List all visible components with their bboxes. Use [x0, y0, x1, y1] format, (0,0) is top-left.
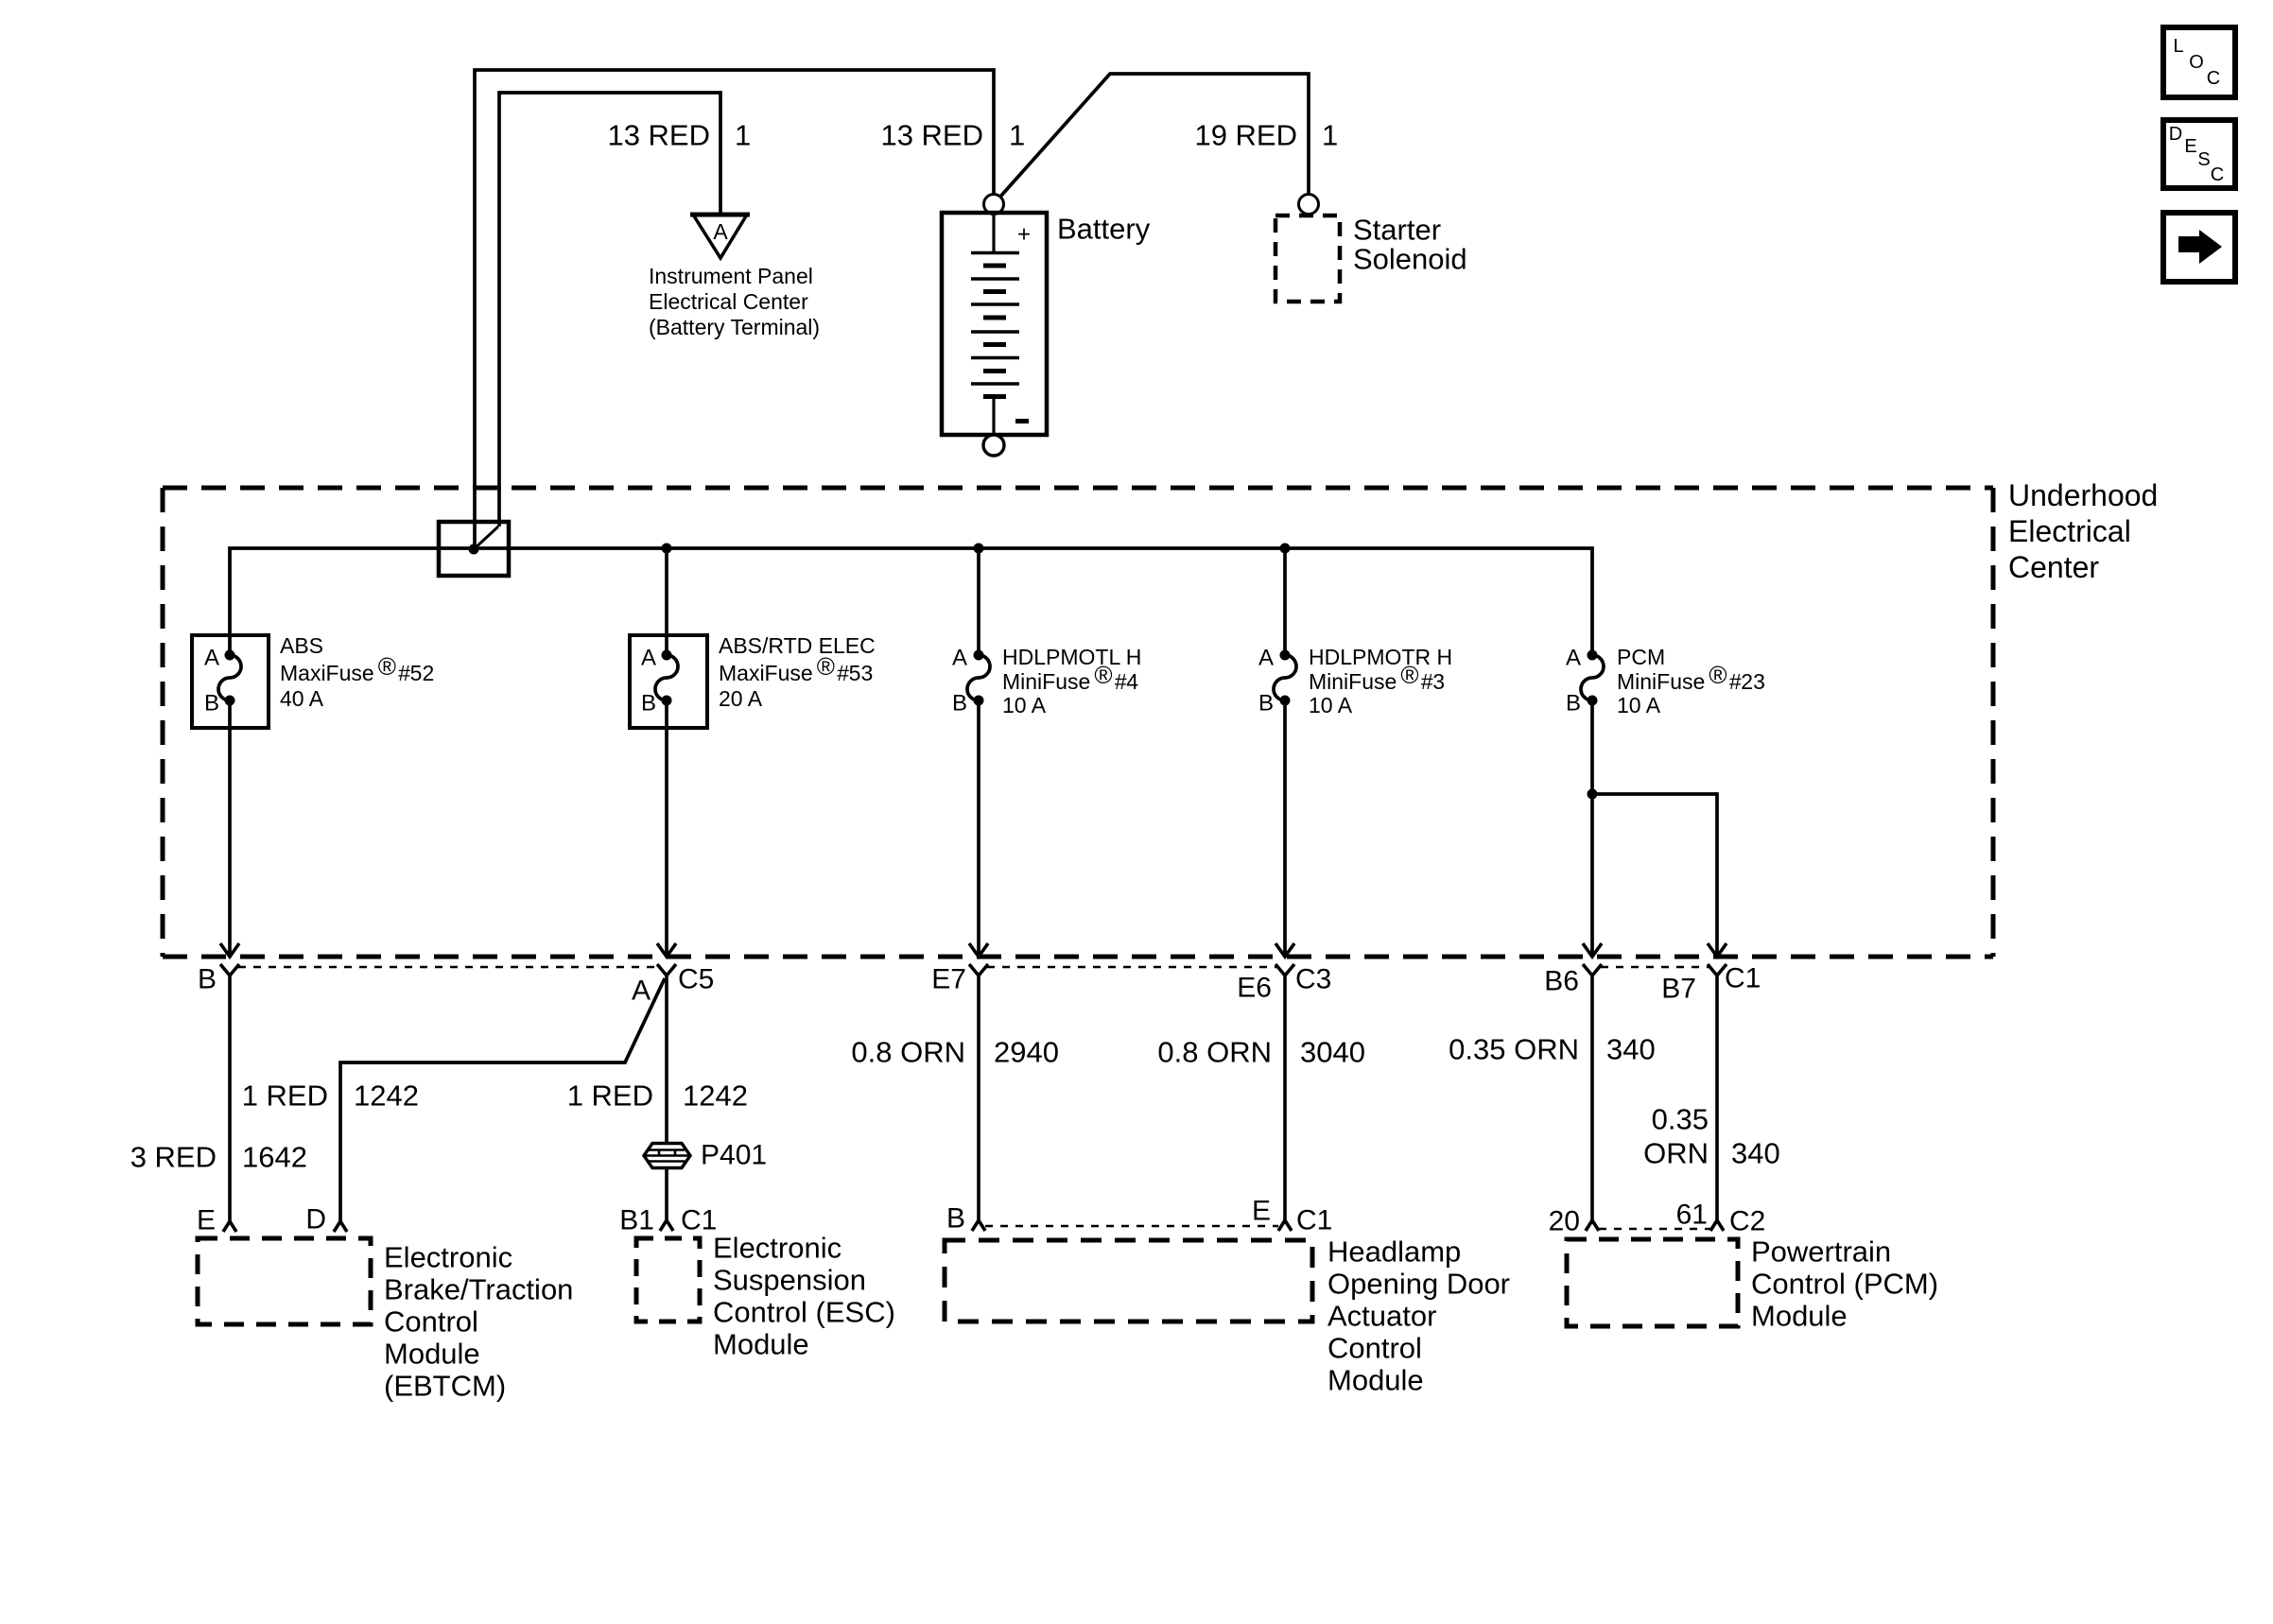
- svg-text:0.35: 0.35: [1652, 1103, 1709, 1136]
- svg-text:19 RED: 19 RED: [1194, 119, 1297, 152]
- battery B+ terminal ring: [984, 195, 1004, 215]
- EBTCM module dashed box: [198, 1238, 371, 1324]
- svg-text:B: B: [641, 691, 656, 717]
- wire fuse 52 B to connector B: [228, 700, 232, 955]
- connector arrow B: [220, 943, 239, 957]
- bus B+ feed rail inside UEC: [230, 548, 1592, 655]
- svg-text:B1: B1: [619, 1205, 654, 1236]
- connector fork D (EBTCM): [334, 1221, 347, 1232]
- svg-text:0.8 ORN: 0.8 ORN: [1157, 1036, 1272, 1069]
- note Instrument Panel Electrical Center (Battery Terminal): [649, 264, 820, 339]
- svg-text:340: 340: [1731, 1137, 1780, 1170]
- svg-text:0.35 ORN: 0.35 ORN: [1449, 1033, 1579, 1066]
- svg-text:A: A: [1566, 646, 1581, 671]
- svg-text:B: B: [1258, 691, 1274, 717]
- svg-text:L: L: [2173, 36, 2183, 57]
- svg-text:B6: B6: [1544, 966, 1579, 997]
- wire battery to starter solenoid (diagonal + top run): [1000, 74, 1309, 197]
- svg-text:+: +: [1017, 222, 1031, 248]
- svg-text:1 RED: 1 RED: [567, 1080, 653, 1113]
- wire fuse 23 B to connector B6: [1590, 700, 1594, 955]
- svg-text:Module: Module: [1751, 1300, 1848, 1333]
- svg-text:Battery: Battery: [1057, 213, 1151, 246]
- starter solenoid terminal ring: [1299, 195, 1319, 215]
- svg-text:D: D: [305, 1204, 326, 1235]
- wire bus tap to fuse 3: [1283, 548, 1287, 655]
- ESC module dashed box: [636, 1238, 700, 1322]
- node splice junction dot: [469, 544, 479, 555]
- svg-text:P401: P401: [701, 1140, 767, 1171]
- connector fork B with stem: [220, 964, 239, 1221]
- connector fork C5 with stem: [657, 964, 676, 1220]
- svg-text:Starter: Starter: [1353, 214, 1441, 247]
- svg-text:ABS: ABS: [280, 633, 323, 658]
- svg-text:1: 1: [735, 119, 751, 152]
- label Powertrain Control (PCM) Module: [1751, 1235, 1938, 1333]
- svg-text:C3: C3: [1295, 964, 1331, 995]
- svg-text:(Battery Terminal): (Battery Terminal): [649, 315, 820, 339]
- connector fork E (EBTCM): [223, 1221, 236, 1232]
- svg-text:1: 1: [1009, 119, 1025, 152]
- connector fork C1 with stem: [1708, 964, 1726, 1220]
- svg-text:HDLPMOTR H: HDLPMOTR H: [1309, 645, 1452, 669]
- svg-text:S: S: [2197, 149, 2210, 170]
- svg-text:Control: Control: [1327, 1332, 1422, 1365]
- connector joint dashed B6 to C1: [1601, 966, 1709, 969]
- svg-text:3 RED: 3 RED: [130, 1141, 217, 1174]
- svg-text:C: C: [2207, 68, 2220, 89]
- svg-text:Underhood: Underhood: [2008, 478, 2158, 512]
- svg-text:1242: 1242: [683, 1080, 748, 1113]
- svg-text:(EBTCM): (EBTCM): [384, 1370, 506, 1403]
- svg-text:Control: Control: [384, 1305, 478, 1339]
- junction dot fuse 4 tap: [974, 544, 984, 554]
- wire PCM branch to connector C1 (B7): [1592, 794, 1717, 955]
- svg-text:13 RED: 13 RED: [607, 119, 710, 152]
- label Underhood Electrical Center: [2008, 478, 2158, 584]
- connector fork E7 with stem: [969, 964, 988, 1220]
- connector joint dashed B to E (headlamp module): [985, 1225, 1278, 1228]
- label HDLPMOTR H MiniFuse #3 10 A: [1309, 645, 1452, 717]
- svg-text:E6: E6: [1237, 973, 1272, 1004]
- svg-text:A: A: [1258, 646, 1274, 671]
- icon forward arrow box: [2163, 213, 2235, 282]
- svg-text:Opening Door: Opening Door: [1327, 1268, 1510, 1301]
- svg-text:3040: 3040: [1300, 1036, 1365, 1069]
- icon DESC box: [2163, 120, 2235, 188]
- svg-text:B: B: [952, 691, 967, 717]
- svg-text:20: 20: [1549, 1206, 1580, 1237]
- PCM module dashed box: [1567, 1239, 1738, 1326]
- svg-text:E7: E7: [931, 964, 966, 995]
- svg-text:1: 1: [1322, 119, 1338, 152]
- svg-text:C1: C1: [1725, 963, 1761, 994]
- fuse HDLPMOTL H MiniFuse #4 10A: [952, 646, 990, 717]
- svg-text:10 A: 10 A: [1002, 693, 1047, 717]
- wire fuse 53 B to connector C5: [665, 700, 668, 955]
- svg-text:A: A: [641, 646, 656, 671]
- fuse ABS/RTD ELEC MaxiFuse #53 20A (boxed): [630, 635, 707, 728]
- svg-text:Electrical: Electrical: [2008, 514, 2131, 548]
- svg-text:Instrument Panel: Instrument Panel: [649, 264, 813, 288]
- svg-text:13 RED: 13 RED: [880, 119, 983, 152]
- connector fork B1 (ESC): [660, 1220, 673, 1231]
- svg-text:A: A: [204, 646, 219, 671]
- headlamp opening door actuator control module dashed box: [945, 1240, 1312, 1322]
- svg-text:0.8 ORN: 0.8 ORN: [851, 1036, 965, 1069]
- wire bus tap to fuse 4: [977, 548, 980, 655]
- label Electronic Brake/Traction Control Module (EBTCM): [384, 1241, 573, 1403]
- svg-text:Actuator: Actuator: [1327, 1300, 1436, 1333]
- svg-text:E: E: [197, 1205, 216, 1236]
- wire A pin diagonal branch to EBTCM pin D: [340, 978, 665, 1221]
- svg-text:Module: Module: [713, 1328, 809, 1361]
- svg-text:Suspension: Suspension: [713, 1264, 866, 1297]
- svg-text:C1: C1: [1296, 1205, 1332, 1236]
- fuse HDLPMOTR H MiniFuse #3 10A: [1258, 646, 1296, 717]
- svg-text:Control (PCM): Control (PCM): [1751, 1268, 1938, 1301]
- svg-text:E: E: [1252, 1196, 1271, 1227]
- icon LOC box: [2163, 27, 2235, 97]
- svg-text:ORN: ORN: [1643, 1137, 1709, 1170]
- wire fuse 3 B to connector C3: [1283, 700, 1287, 955]
- svg-text:10 A: 10 A: [1309, 693, 1353, 717]
- starter solenoid (dashed box): [1275, 216, 1340, 302]
- svg-text:1242: 1242: [354, 1080, 419, 1113]
- connector fork E (headlamp module): [1278, 1220, 1292, 1231]
- connector joint dashed E7 to C3: [987, 966, 1276, 969]
- bus splice box inside UEC: [439, 522, 509, 576]
- svg-text:B: B: [198, 964, 217, 995]
- svg-text:Powertrain: Powertrain: [1751, 1235, 1891, 1269]
- svg-text:B: B: [204, 691, 219, 717]
- svg-text:C2: C2: [1729, 1206, 1765, 1237]
- terminal A triangle (Instrument Panel Electrical Center battery terminal): [690, 215, 750, 258]
- svg-text:Electrical Center: Electrical Center: [649, 289, 808, 314]
- label ABS MaxiFuse #52 40 A: [280, 633, 434, 711]
- svg-text:E: E: [2184, 136, 2196, 157]
- fuse ABS MaxiFuse #52 40A (boxed): [192, 635, 269, 728]
- battery G (box with cell plates): [942, 213, 1047, 435]
- label PCM MiniFuse #23 10 A: [1617, 645, 1765, 717]
- connector arrow C3: [1275, 943, 1294, 957]
- svg-text:A: A: [713, 219, 728, 244]
- svg-text:Electronic: Electronic: [713, 1232, 842, 1265]
- svg-text:61: 61: [1676, 1200, 1708, 1231]
- svg-text:2940: 2940: [994, 1036, 1059, 1069]
- svg-text:1 RED: 1 RED: [242, 1080, 328, 1113]
- svg-text:A: A: [632, 976, 651, 1007]
- wire battery positive to IP electrical center feed (top horizontal run): [475, 70, 994, 547]
- svg-text:B: B: [1566, 691, 1581, 717]
- connector fork B (headlamp module): [972, 1220, 985, 1231]
- svg-text:10 A: 10 A: [1617, 693, 1661, 717]
- connector arrow C1: [1708, 943, 1726, 957]
- svg-text:Center: Center: [2008, 550, 2099, 584]
- svg-text:B: B: [946, 1203, 965, 1235]
- label HDLPMOTL H MiniFuse #4 10 A: [1002, 645, 1141, 717]
- svg-text:Electronic: Electronic: [384, 1241, 512, 1274]
- wire branch to instrument panel terminal A: [499, 93, 720, 527]
- svg-text:40 A: 40 A: [280, 686, 324, 711]
- connector arrow C5: [657, 943, 676, 957]
- connector joint dashed 20 to 61 (PCM): [1599, 1228, 1710, 1231]
- svg-text:PCM: PCM: [1617, 645, 1665, 669]
- svg-text:1642: 1642: [242, 1141, 307, 1174]
- connector fork 20 (PCM): [1586, 1220, 1599, 1231]
- svg-text:Control (ESC): Control (ESC): [713, 1296, 895, 1329]
- connector arrow E7: [969, 943, 988, 957]
- svg-text:C5: C5: [678, 964, 714, 995]
- junction dot PCM branch: [1588, 789, 1598, 800]
- svg-text:Module: Module: [384, 1338, 480, 1371]
- svg-text:20 A: 20 A: [719, 686, 763, 711]
- junction dot fuse 53 tap: [662, 544, 672, 554]
- Underhood Electrical Center dashed border: [163, 488, 1993, 957]
- label Headlamp Opening Door Actuator Control Module: [1327, 1235, 1510, 1397]
- svg-text:HDLPMOTL H: HDLPMOTL H: [1002, 645, 1141, 669]
- svg-text:Brake/Traction: Brake/Traction: [384, 1273, 573, 1306]
- junction dot fuse 3 tap: [1280, 544, 1291, 554]
- fuse PCM MiniFuse #23 10A: [1566, 646, 1604, 717]
- svg-text:340: 340: [1606, 1033, 1656, 1066]
- svg-text:Module: Module: [1327, 1364, 1424, 1397]
- svg-text:A: A: [952, 646, 967, 671]
- connector joint dashed B to C5: [238, 966, 658, 969]
- splice P401: [644, 1140, 767, 1171]
- connector fork C3 with stem: [1275, 964, 1294, 1220]
- connector fork B6 with stem: [1583, 964, 1602, 1220]
- svg-text:D: D: [2169, 124, 2182, 145]
- svg-text:O: O: [2189, 52, 2204, 73]
- connector arrow B6: [1583, 943, 1602, 957]
- wire fuse 4 B to connector E7: [977, 700, 980, 955]
- svg-text:C1: C1: [681, 1205, 717, 1236]
- svg-text:Solenoid: Solenoid: [1353, 243, 1467, 276]
- battery negative terminal ring: [983, 435, 1004, 456]
- connector fork 61 (PCM): [1710, 1220, 1724, 1231]
- svg-text:C: C: [2211, 164, 2224, 185]
- label Electronic Suspension Control (ESC) Module: [713, 1232, 895, 1361]
- svg-text:B7: B7: [1661, 974, 1696, 1005]
- svg-text:ABS/RTD ELEC: ABS/RTD ELEC: [719, 633, 876, 658]
- label ABS/RTD ELEC MaxiFuse #53 20 A: [719, 633, 876, 711]
- svg-text:Headlamp: Headlamp: [1327, 1235, 1461, 1269]
- wire bus tap to fuse 53: [665, 548, 668, 655]
